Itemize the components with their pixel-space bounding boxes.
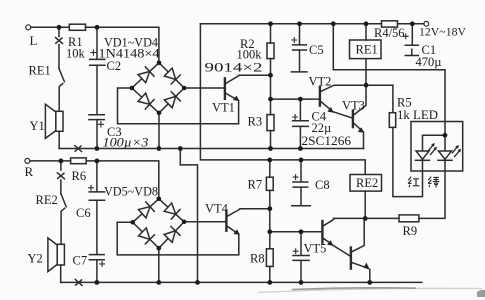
- relay contact blade RE1: [59, 69, 64, 82]
- resistor R7: [266, 177, 273, 190]
- svg-text:R7: R7: [248, 178, 263, 192]
- svg-text:R8: R8: [250, 252, 265, 266]
- terminal L: [26, 25, 31, 30]
- node supply bus / RE1 coil top: [364, 21, 369, 26]
- svg-text:RE1: RE1: [356, 43, 378, 57]
- capacitor C6: [89, 192, 104, 200]
- node bridge2 bottom corner: [157, 246, 162, 251]
- transistor VT5 collector: [323, 218, 333, 225]
- resistor R7 drop from line B: [269, 160, 271, 177]
- VT3 emitter arrowhead: [358, 127, 365, 133]
- node bridge2 right corner: [182, 220, 187, 225]
- wire R7 to nodes: [269, 190, 271, 248]
- transistor VT6 emitter: [352, 263, 368, 269]
- svg-text:10k: 10k: [66, 47, 86, 61]
- svg-text:Y1: Y1: [30, 119, 45, 133]
- svg-text:470µ: 470µ: [416, 55, 442, 69]
- speaker Y1: [56, 111, 63, 131]
- wire VT5 base line: [270, 231, 322, 233]
- svg-text:2SC1266: 2SC1266: [302, 134, 352, 148]
- node supply bus / C1 top: [410, 21, 415, 26]
- resistor R5: [389, 113, 395, 128]
- svg-text:R3: R3: [248, 115, 263, 129]
- capacitor below VT5 base column: [300, 232, 302, 255]
- diode VD5 (bridge 2 upper-left): [133, 199, 159, 223]
- transistor VT2 collector: [321, 85, 393, 91]
- diode VD1 (bridge 1 upper-left): [132, 63, 159, 88]
- wire bridge1 left corner loop: [118, 88, 239, 124]
- wire contact to speaker Y2: [61, 208, 65, 244]
- wire R line input: [25, 158, 30, 163]
- transistor VT2 emitter: [321, 102, 332, 111]
- label R (right channel input): [25, 164, 34, 179]
- svg-text:R9: R9: [403, 224, 418, 238]
- transistor VT6 collector: [352, 218, 364, 251]
- label L: [30, 33, 38, 48]
- resistor R8: [266, 249, 273, 267]
- node bridge1 left corner: [130, 86, 135, 91]
- transistor VT3 collector: [354, 59, 366, 115]
- node bridge2 bottom on lower bus: [156, 280, 161, 285]
- svg-text:9014×2: 9014×2: [205, 61, 263, 75]
- wire bridge2 left corner loop: [117, 222, 239, 255]
- capacitor C8: [293, 182, 308, 187]
- wire R6 to bridge 2 top: [86, 161, 159, 199]
- resistor R3: [267, 115, 274, 131]
- node C8 top on line B: [299, 158, 304, 163]
- transistor VT4 collector: [227, 209, 240, 217]
- diode VD2 (bridge 1 upper-right): [159, 63, 184, 88]
- svg-text:VT3: VT3: [342, 99, 365, 113]
- node VT1 collector / R2-R3 junction: [268, 73, 273, 78]
- transistor VT2 base bar: [319, 87, 321, 106]
- node ground link on lower bus: [195, 280, 200, 285]
- node C4 top / VT2 base line: [298, 97, 303, 102]
- node VT2 collector / RE1 coil / R5: [364, 83, 369, 88]
- node R8 bottom on lower bus: [267, 280, 272, 285]
- VT1 emitter arrowhead: [233, 96, 240, 101]
- node lower cap / VT5 base line: [299, 229, 304, 234]
- resistor R9: [399, 215, 419, 222]
- wire C7 to bus: [96, 260, 98, 283]
- label hong (red) hand-drawn: [408, 177, 439, 188]
- svg-text:C6: C6: [76, 206, 91, 220]
- wire R3 to bus: [270, 131, 272, 149]
- node C3 bottom on upper bus: [95, 146, 100, 151]
- relay contact mark RE2: [57, 173, 64, 179]
- VT2 emitter arrowhead: [327, 107, 334, 113]
- diode VD8 (bridge 2 lower-right): [159, 222, 184, 248]
- node R3 top / VT2 base line: [268, 97, 273, 102]
- capacitor C2: [90, 59, 105, 65]
- wire bus of upper channel: [59, 148, 363, 150]
- wire C3 to bus: [96, 120, 98, 149]
- svg-text:L: L: [30, 33, 38, 48]
- wire bridge2 right to VT4 base: [184, 221, 226, 223]
- LED indicator box: [411, 122, 463, 172]
- wire RE1 top to bus: [365, 24, 367, 40]
- resistor R2 column: [270, 24, 272, 43]
- svg-text:100k: 100k: [237, 48, 263, 62]
- transistor VT6 base bar: [350, 248, 352, 269]
- wire contact upper R: [60, 180, 62, 194]
- wire contact to speaker Y1: [59, 84, 63, 112]
- label lv (green) hand-drawn: [428, 177, 432, 188]
- wire C5 to end bar: [299, 50, 301, 72]
- VT6 emitter arrowhead: [364, 263, 370, 270]
- diode VD6 (bridge 2 upper-right): [159, 199, 184, 222]
- capacitor C5 column: [299, 24, 301, 45]
- resistor R1: [69, 24, 85, 30]
- node supply bus / C5 top: [297, 21, 302, 26]
- svg-text:VT1: VT1: [212, 101, 235, 115]
- relay contact mark RE1: [56, 38, 63, 44]
- node R1 output / C2 top: [95, 25, 100, 30]
- LED red (VL1): [416, 151, 429, 159]
- svg-text:1k LED: 1k LED: [397, 108, 438, 122]
- wire C4 to bus: [299, 126, 301, 148]
- node bridge2 top corner: [157, 197, 162, 202]
- svg-text:RE2: RE2: [356, 176, 378, 190]
- node C7 bottom on lower bus: [95, 280, 100, 285]
- wire Y1 to bus: [58, 131, 60, 148]
- resistor R5 drop: [392, 85, 394, 113]
- relay coil RE2: [350, 175, 382, 192]
- transistor VT4 base bar: [225, 212, 227, 231]
- node ground link on upper bus: [178, 146, 183, 151]
- wire R4 to terminal: [398, 23, 425, 25]
- node VT4 collector / R7-R8 junction: [267, 206, 272, 211]
- resistor R2: [267, 43, 274, 59]
- node bridge2 left corner: [130, 220, 135, 225]
- node bridge1 top corner: [157, 61, 162, 66]
- wire VT2 base line: [271, 98, 320, 100]
- wire R5 to red LED cathode: [393, 127, 423, 196]
- svg-text:100µ×3: 100µ×3: [103, 136, 149, 150]
- wire lower cap to bus: [300, 260, 302, 282]
- wire R2 bottom through nodes: [270, 59, 272, 115]
- capacitor C8 column: [300, 160, 302, 182]
- wire contact upper: [58, 45, 60, 69]
- crossing mark on bottom bus: [75, 279, 82, 285]
- svg-text:C8: C8: [315, 178, 330, 192]
- wire bus to line B (left drop): [200, 24, 365, 175]
- wire node to RE1 contact: [58, 27, 60, 36]
- node VT6 emitter on lower bus: [367, 280, 372, 285]
- diode VD4 (bridge 1 lower-right): [159, 88, 184, 113]
- svg-text:C2: C2: [107, 59, 122, 73]
- LED green (VL2): [439, 151, 452, 159]
- wire bottom bus: [61, 281, 422, 283]
- wire R1 to bridge 1 top: [86, 27, 159, 63]
- wire C8 to end bar: [300, 187, 302, 205]
- wire supply to LED anodes: [333, 24, 445, 136]
- svg-text:12V~18V: 12V~18V: [419, 25, 466, 39]
- node supply bus / LED feed: [331, 21, 336, 26]
- svg-text:VT4: VT4: [205, 202, 229, 216]
- node bridge1 bottom corner: [157, 111, 162, 116]
- VT4 emitter arrowhead: [233, 229, 240, 234]
- wire top supply bus: [200, 23, 381, 25]
- node C4 bottom on upper bus: [298, 146, 303, 151]
- svg-text:C7: C7: [73, 254, 88, 268]
- wire RE2 bottom: [364, 191, 366, 218]
- wire node to RE2 contact: [60, 161, 62, 170]
- crossing mark on upper bus: [75, 146, 82, 152]
- wire Y2 to bottom bus: [60, 265, 62, 282]
- node bridge1 bottom on upper bus: [157, 146, 162, 151]
- capacitor (lower, unlabeled): [293, 256, 309, 261]
- node R7 top on line B: [267, 158, 272, 163]
- wire bridge2 bottom to bus: [158, 248, 160, 282]
- node RE2 coil bottom / VT5-VT6 collectors / R9: [363, 216, 368, 221]
- capacitor C5: [293, 45, 307, 50]
- wire bridge1 right to VT1 base: [184, 87, 225, 89]
- resistor R4: [382, 21, 398, 27]
- svg-text:RE2: RE2: [36, 193, 58, 207]
- capacitor C7: [89, 255, 104, 260]
- wire green LED top: [444, 135, 446, 151]
- capacitor C4 column: [299, 99, 301, 120]
- resistor R6: [71, 158, 87, 164]
- wire LED anode node to red LED: [423, 135, 446, 151]
- svg-text:C5: C5: [309, 43, 324, 57]
- node R3 bottom on upper bus: [268, 146, 273, 151]
- capacitor C6 column: [96, 161, 98, 192]
- ground link upper bus to lower bus: [180, 149, 197, 283]
- wire bridge1 bottom to bus: [158, 113, 160, 149]
- node supply bus / R2 top: [268, 21, 273, 26]
- wire R9 to relay node: [334, 217, 399, 219]
- svg-text:R4/56: R4/56: [374, 26, 405, 40]
- wire C2 to C3: [96, 65, 98, 114]
- svg-text:VT2: VT2: [309, 75, 332, 89]
- wire L input to R1: [31, 26, 70, 28]
- node L input / RE1 contact junction: [57, 25, 62, 30]
- relay contact blade RE2: [61, 194, 66, 207]
- svg-text:R6: R6: [72, 169, 87, 183]
- capacitor C3: [89, 115, 104, 120]
- transistor VT1 emitter: [226, 93, 237, 99]
- transistor VT3 emitter: [354, 123, 362, 130]
- transistor VT5 base bar: [321, 221, 323, 243]
- speaker Y2: [57, 244, 64, 265]
- svg-text:R: R: [25, 164, 34, 179]
- svg-text:VT5: VT5: [304, 242, 327, 256]
- transistor VT4 emitter: [227, 226, 237, 233]
- svg-text:VD5~VD8: VD5~VD8: [104, 185, 158, 199]
- node lower cap bottom on lower bus: [299, 280, 304, 285]
- node R6 output / C6 top: [95, 159, 100, 164]
- transistor VT3 base bar: [352, 111, 354, 127]
- wire C6 to C7: [96, 200, 98, 254]
- svg-text:RE1: RE1: [29, 64, 51, 78]
- relay coil RE1: [350, 40, 382, 59]
- svg-text:Y2: Y2: [28, 252, 43, 266]
- node LED common anode: [443, 133, 448, 138]
- transistor VT1 base bar: [224, 78, 226, 98]
- terminal 12V: [424, 21, 429, 26]
- node R8 top / VT5 base line: [267, 229, 272, 234]
- diode VD3 (bridge 1 lower-left): [132, 88, 159, 113]
- node R input / RE2 contact junction: [59, 159, 64, 164]
- wire R8 to bus: [269, 266, 271, 282]
- wire C2 column: [96, 27, 98, 59]
- watermark swoosh: [258, 288, 482, 292]
- capacitor C4: [293, 121, 309, 127]
- node bridge1 right corner: [182, 86, 187, 91]
- wire green LED cathode to R9: [419, 160, 445, 218]
- diode VD7 (bridge 2 lower-left): [133, 222, 159, 248]
- capacitor C1: [411, 24, 413, 45]
- transistor VT1 collector: [226, 75, 239, 83]
- transistor VT5 emitter: [323, 238, 331, 243]
- svg-text:22µ: 22µ: [312, 121, 332, 135]
- VT5 emitter arrowhead: [327, 240, 334, 246]
